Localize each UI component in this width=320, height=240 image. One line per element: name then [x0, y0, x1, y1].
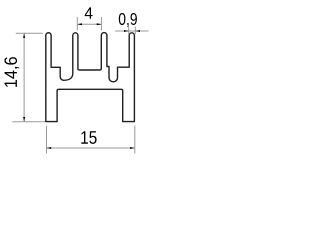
arrow down [23, 117, 25, 122]
dim 15 ext left [46, 126, 48, 154]
text 14,6 [4, 57, 19, 87]
dim 4 line [77, 23, 101, 25]
dim 14,6 line [23, 33, 25, 121]
dim 4 ext right [100, 17, 102, 30]
arrow right [97, 23, 102, 25]
heatsink profile outline [46, 33, 135, 122]
arrow pointing right at 0,9 [124, 30, 129, 32]
arrow right 15 [130, 147, 135, 149]
dim 14,6 extension bottom [12, 121, 45, 123]
arrow left [77, 23, 82, 25]
dim 15 line [47, 147, 135, 149]
arrow pointing left at 0,9 [135, 30, 140, 32]
text 4 [85, 7, 93, 18]
dim 0,9 ext left [128, 27, 130, 35]
arrow up [23, 33, 25, 38]
dim 14,6 extension top [16, 32, 43, 34]
dim 15 ext right [134, 126, 136, 154]
dim 4 ext left [76, 17, 78, 30]
dim 0,9 line [115, 30, 148, 32]
text 0,9 [119, 13, 137, 27]
arrow left 15 [47, 147, 52, 149]
dim 0,9 ext right [134, 27, 136, 35]
text 15 [81, 131, 96, 144]
